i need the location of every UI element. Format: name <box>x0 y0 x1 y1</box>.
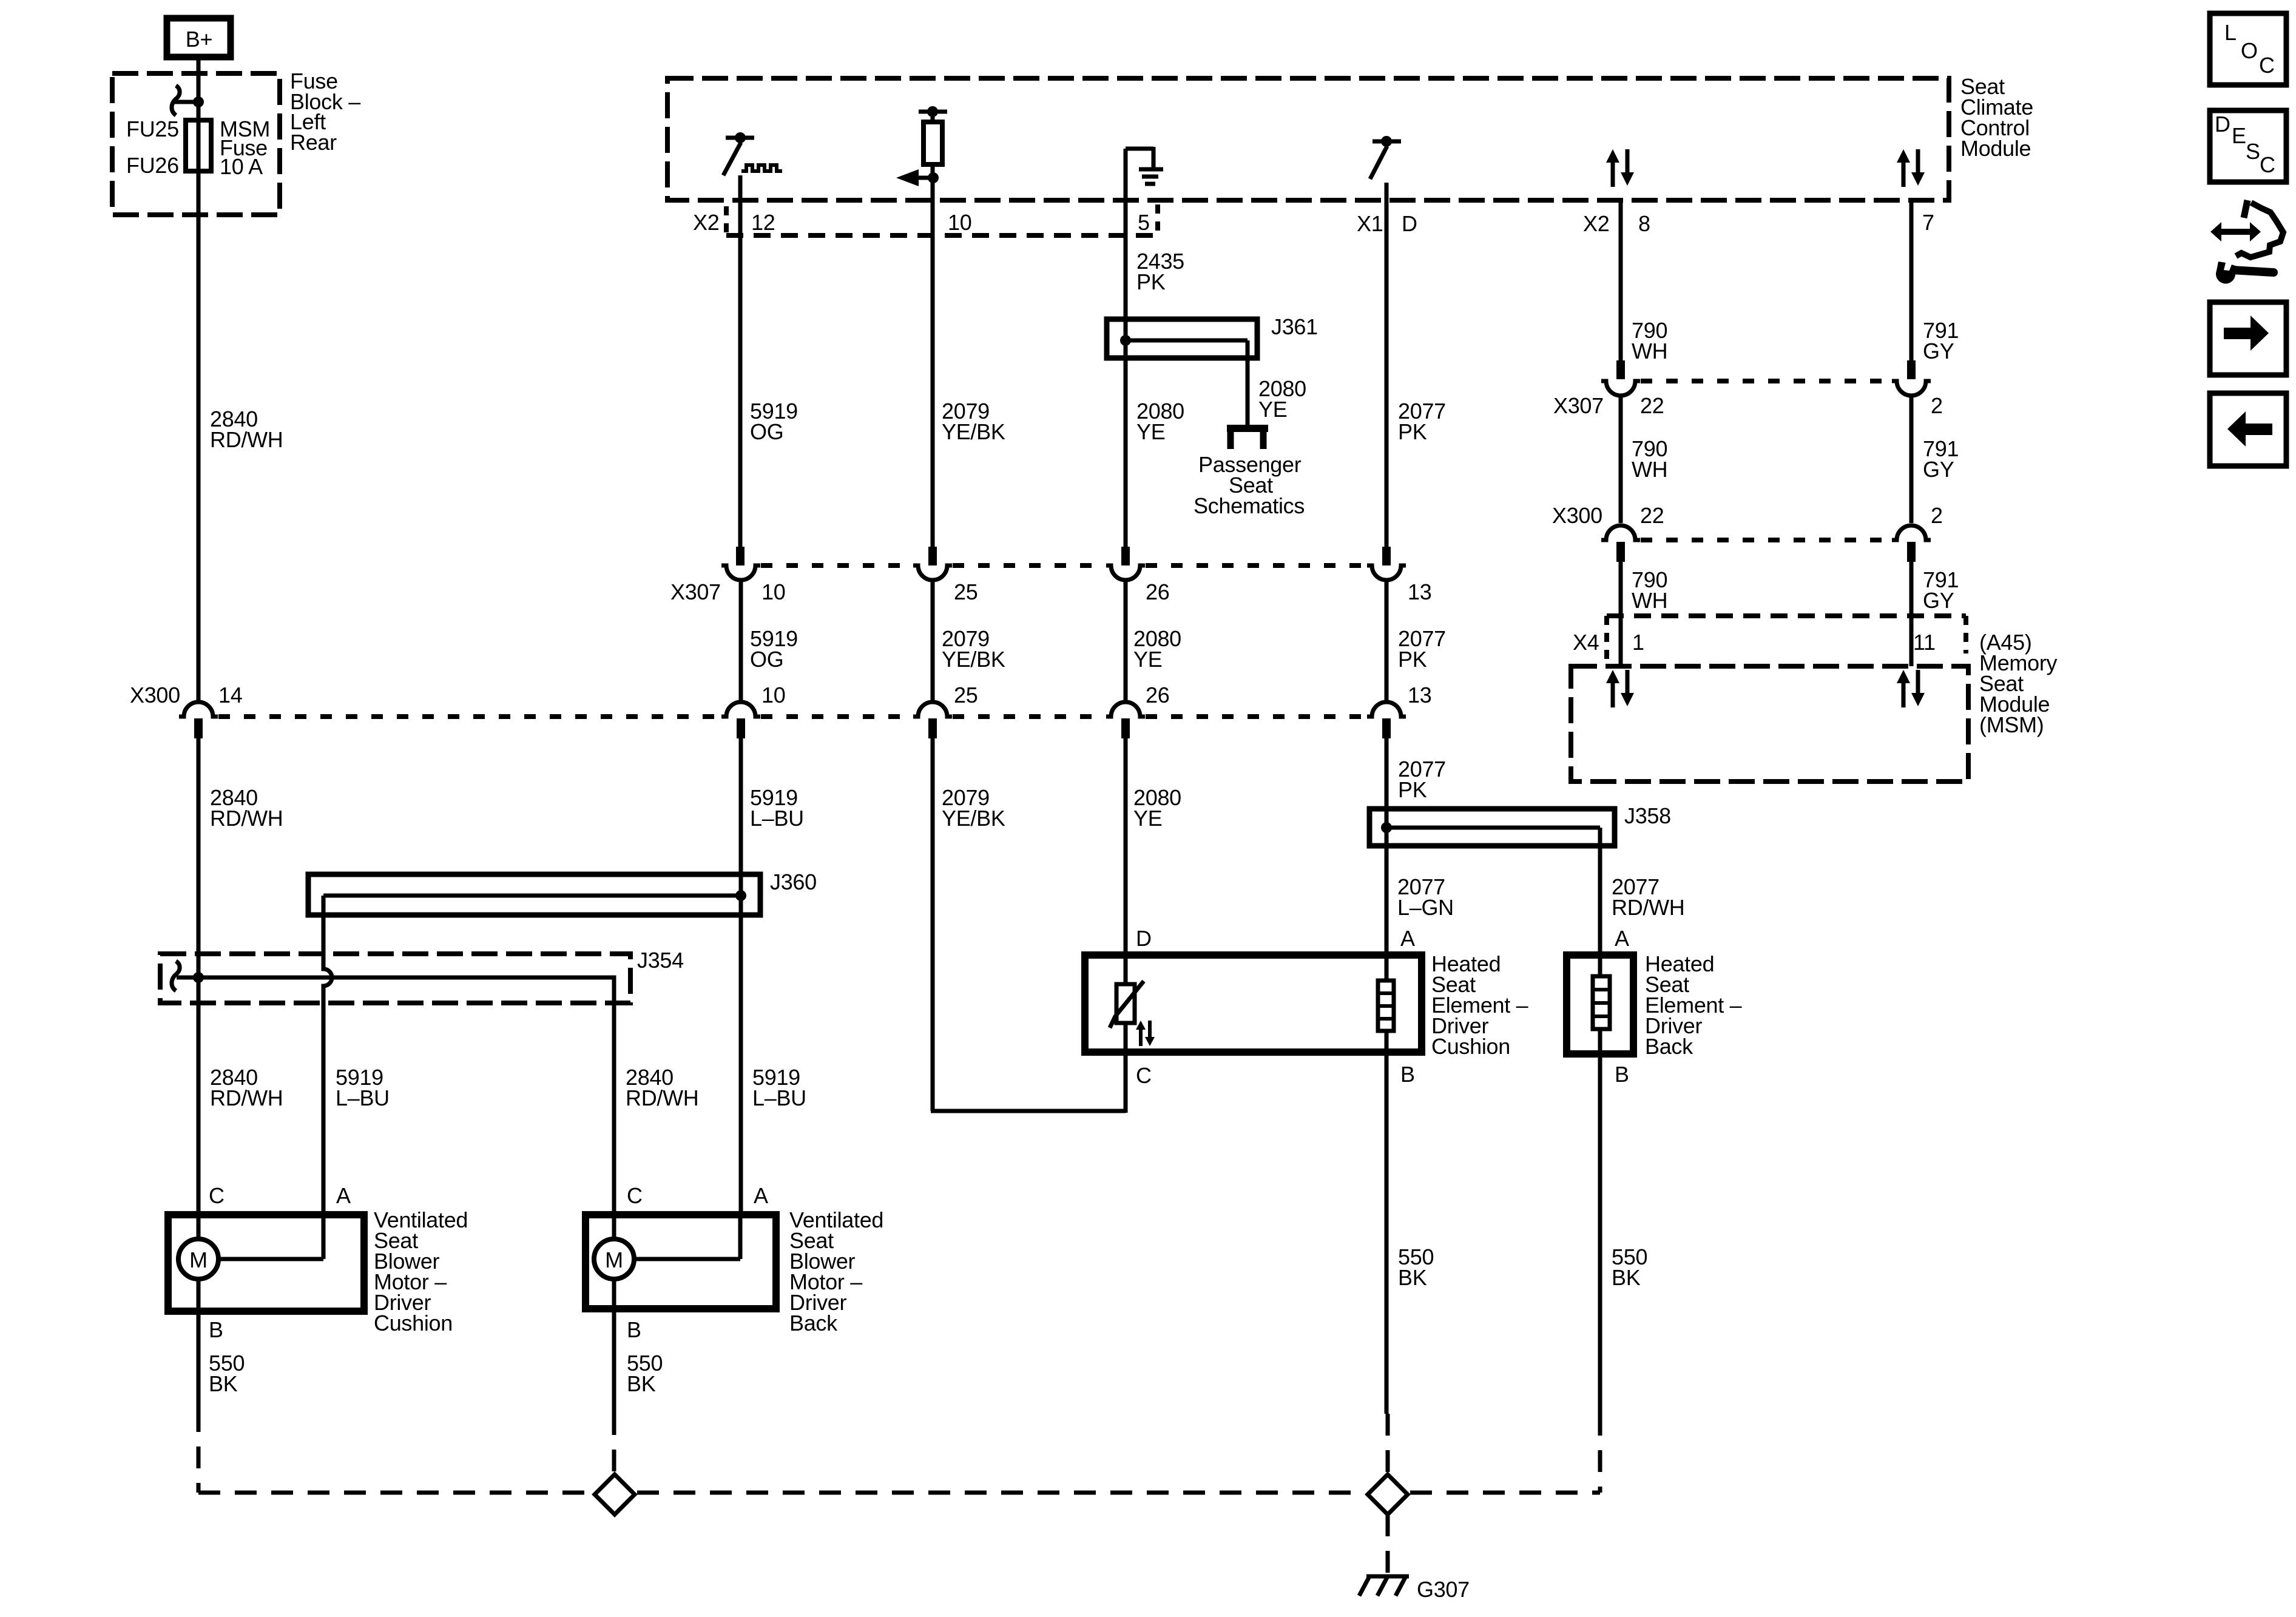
connector line X300 (dashed) <box>218 714 1367 719</box>
svg-text:Rear: Rear <box>290 130 337 155</box>
svg-text:YE: YE <box>1136 419 1165 444</box>
fuse-block terminal hook <box>172 86 198 115</box>
fuse block label <box>290 69 360 155</box>
svg-text:B: B <box>1615 1062 1629 1087</box>
junction dot J354 <box>193 972 204 983</box>
connector X300 terminal pin 25 (arc + pin) <box>913 702 952 738</box>
feedback arrow on pin 10 branch <box>896 164 939 186</box>
circuit label 791 GY (above X307) <box>1923 318 1959 363</box>
label ventilated seat blower motor driver cushion <box>374 1207 468 1335</box>
svg-text:A: A <box>754 1183 768 1208</box>
svg-text:11: 11 <box>1913 630 1936 655</box>
ground junction diamond (left) <box>595 1474 635 1514</box>
svg-text:B: B <box>1400 1062 1415 1087</box>
connector X4 pin labels <box>1573 630 1936 655</box>
circuit label 790 WH (above X307) <box>1632 318 1667 363</box>
svg-text:10: 10 <box>761 683 785 707</box>
svg-text:YE: YE <box>1258 397 1287 422</box>
wire 2840 RD/WH below X300 to motor C <box>197 738 201 1410</box>
MSM serial data arrows (pin 1) <box>1606 670 1634 707</box>
circuit label 550 BK (cushion element) <box>1398 1244 1434 1290</box>
fuse block - left rear (dashed box) <box>112 73 280 215</box>
svg-text:J361: J361 <box>1271 314 1318 339</box>
svg-text:13: 13 <box>1408 579 1431 604</box>
connector X307 terminal pin 10 (pin + cup) <box>721 547 760 580</box>
wire 2840 RD/WH jumper through J354 to right motor C (with crossover hop) <box>177 977 614 1215</box>
svg-text:L–BU: L–BU <box>750 806 804 831</box>
wire 790 WH X307 to X300 <box>1619 396 1623 523</box>
svg-text:RD/WH: RD/WH <box>626 1085 698 1110</box>
svg-text:B: B <box>209 1317 223 1342</box>
svg-text:D: D <box>2215 112 2230 137</box>
connector X300 terminal pin 10 (arc + pin) <box>721 702 760 738</box>
junction dot J358 <box>1381 822 1392 833</box>
wire 790 WH module pin 8 to X307 <box>1619 200 1623 362</box>
pin labels heated back element <box>1615 926 1629 1087</box>
wire 5919 OG X307 to X300 <box>739 580 743 702</box>
svg-text:RD/WH: RD/WH <box>210 806 283 831</box>
circuit label 550 BK (left motor) <box>209 1351 245 1396</box>
circuit label 790 WH (upper) <box>1632 436 1667 482</box>
svg-text:X4: X4 <box>1573 630 1599 655</box>
dashed ground wire from left motor <box>197 1410 201 1493</box>
heated seat element - driver back (box) <box>1567 955 1633 1054</box>
svg-text:PK: PK <box>1398 777 1427 802</box>
wire 2435 PK module pin 5 down to J361 <box>1124 149 1128 547</box>
connector X2 pin labels <box>693 210 1934 236</box>
circuit label 2077 RD/WH <box>1612 874 1684 920</box>
svg-text:A: A <box>1615 926 1629 951</box>
svg-text:YE/BK: YE/BK <box>942 806 1005 831</box>
icon harness routing with wrench <box>2210 200 2283 284</box>
svg-text:WH: WH <box>1632 588 1667 613</box>
svg-text:E: E <box>2232 123 2246 148</box>
circuit label 2077 PK (middle) <box>1398 626 1446 672</box>
connector X300 terminal pin 13 (arc + pin) <box>1367 702 1406 738</box>
splice pack J358 <box>1369 809 1615 846</box>
J354 terminal hook <box>172 961 180 991</box>
connector X307 terminal pin 22 right (pin + cup) <box>1601 200 1640 396</box>
connector line X300 right (dashed) <box>1641 538 1892 542</box>
svg-text:26: 26 <box>1146 683 1169 707</box>
svg-text:C: C <box>627 1183 643 1208</box>
internal resistor (module pin 10) <box>919 106 947 164</box>
dashed ground wire from right motor to diamond <box>612 1413 616 1473</box>
connector X300 terminal pin 2 right (arc + pin) <box>1892 525 1931 562</box>
svg-text:8: 8 <box>1638 211 1650 236</box>
svg-text:J360: J360 <box>770 869 817 894</box>
label heated seat element driver cushion <box>1431 951 1528 1059</box>
connector X300 pin 14 labels <box>130 683 242 707</box>
wire 2840 RD/WH from B+ through fuse to X300 <box>197 57 201 702</box>
svg-text:C: C <box>2259 53 2275 78</box>
splice pack J361 <box>1107 319 1257 425</box>
circuit label 5919 OG (middle) <box>750 626 798 672</box>
wire 2077 L-GN J358 to heated cushion element A <box>1385 828 1389 981</box>
circuit label 2077 L-GN <box>1397 874 1454 920</box>
svg-text:Cushion: Cushion <box>1431 1034 1510 1059</box>
circuit label 2435 PK <box>1136 249 1184 294</box>
label heated seat element driver back <box>1645 951 1742 1059</box>
svg-text:25: 25 <box>954 683 977 707</box>
heater element (driver cushion) <box>1378 955 1394 1053</box>
svg-text:(MSM): (MSM) <box>1979 712 2044 737</box>
circuit label 550 BK (right motor) <box>627 1351 663 1396</box>
wire 2077 PK X300 down to J358 <box>1385 738 1389 828</box>
svg-text:RD/WH: RD/WH <box>210 427 283 452</box>
svg-text:OG: OG <box>750 647 783 672</box>
junction dot J360 <box>735 890 746 901</box>
icon forward arrow <box>2210 302 2286 375</box>
dashed wire from diamond to G307 <box>1386 1514 1390 1575</box>
circuit label 791 GY (upper) <box>1923 436 1959 482</box>
svg-text:C: C <box>209 1183 225 1208</box>
svg-text:M: M <box>605 1247 623 1272</box>
dashed ground wire from heated cushion to diamond <box>1386 1414 1390 1473</box>
wire 791 GY X307 to X300 <box>1909 396 1914 523</box>
wire 550 BK from right motor B <box>612 1309 616 1413</box>
wire 2080 YE X307 to X300 <box>1124 580 1128 702</box>
svg-text:BK: BK <box>1612 1265 1641 1290</box>
circuit label 791 GY (lower) <box>1923 567 1959 613</box>
svg-text:PK: PK <box>1398 419 1427 444</box>
svg-text:A: A <box>336 1183 351 1208</box>
svg-text:10: 10 <box>761 579 785 604</box>
svg-text:WH: WH <box>1632 457 1667 482</box>
icon DESC <box>2210 110 2286 182</box>
connector X300 terminal at pin 14 (arc + pin) <box>179 702 218 738</box>
svg-text:YE: YE <box>1133 806 1162 831</box>
svg-text:X1: X1 <box>1357 211 1383 236</box>
circuit label 2077 PK (upper) <box>1398 399 1446 444</box>
svg-text:D: D <box>1136 926 1152 951</box>
seat climate control module (dashed box) <box>667 78 1949 200</box>
svg-text:7: 7 <box>1922 210 1934 235</box>
svg-text:Schematics: Schematics <box>1194 493 1305 518</box>
junction dot in fuse block <box>193 96 204 107</box>
connector X307 terminal pin 2 right (pin + cup) <box>1892 360 1931 396</box>
svg-text:G307: G307 <box>1417 1577 1470 1602</box>
wire 2077 RD/WH J358 to heated back element A <box>1598 828 1602 976</box>
dashed ground wire from heated back to bus <box>1598 1414 1602 1493</box>
svg-text:22: 22 <box>1640 503 1664 528</box>
circuit label 2840 RD/WH (to right motor C) <box>626 1065 698 1110</box>
svg-text:FU25: FU25 <box>126 116 179 141</box>
pin labels right motor <box>627 1183 768 1342</box>
wire thermistor to box bottom (pin C) <box>1124 1023 1128 1113</box>
svg-text:GY: GY <box>1923 588 1954 613</box>
circuit label 5919 L-BU (below X300) <box>750 785 804 831</box>
svg-text:B: B <box>627 1317 641 1342</box>
svg-text:22: 22 <box>1640 393 1664 418</box>
svg-text:C: C <box>2260 152 2275 177</box>
svg-text:25: 25 <box>954 579 977 604</box>
circuit label 2080 YE (lower) <box>1133 785 1181 831</box>
inline connector J354 (dashed box) <box>160 954 630 1003</box>
circuit label 5919 OG (upper) <box>750 399 798 444</box>
battery feed symbol B+ <box>167 18 231 57</box>
svg-text:C: C <box>1136 1063 1152 1088</box>
fuse FU25/FU26 MSM Fuse 10 A <box>126 116 270 179</box>
svg-text:X307: X307 <box>1553 393 1604 418</box>
off-page connector to passenger seat schematics <box>1227 428 1268 449</box>
wire 550 BK heated cushion B down <box>1385 1053 1389 1414</box>
circuit label 2079 YE/BK (lower) <box>942 785 1005 831</box>
wire module pin 12 to X307 <box>738 175 743 547</box>
svg-text:X300: X300 <box>130 683 180 707</box>
icon LOC (top right) <box>2210 13 2286 85</box>
icon back arrow <box>2210 393 2286 466</box>
svg-text:YE/BK: YE/BK <box>942 419 1005 444</box>
svg-text:BK: BK <box>627 1371 656 1396</box>
wire 2079 YE/BK X300 down to heated element C <box>931 738 1126 1111</box>
circuit label 2077 PK (lower) <box>1398 757 1446 802</box>
wire 5919 L-BU X300 to J360 and right motor A <box>739 738 743 1215</box>
circuit label 790 WH (lower) <box>1632 567 1667 613</box>
circuit label 550 BK (back element) <box>1612 1244 1647 1290</box>
memory seat module label <box>1979 650 2058 737</box>
pin labels heated cushion element <box>1136 926 1415 1088</box>
svg-text:BK: BK <box>1398 1265 1427 1290</box>
PWM output switch (module pin 12) <box>723 132 782 175</box>
svg-text:YE/BK: YE/BK <box>942 647 1005 672</box>
svg-text:2: 2 <box>1931 503 1943 528</box>
wire 2077 PK X307 to X300 <box>1385 580 1389 702</box>
label passenger seat schematics <box>1194 452 1305 518</box>
wire 2079 YE/BK X307 to X300 <box>931 580 935 702</box>
ground junction diamond (right) <box>1368 1474 1408 1514</box>
splice pack J360 <box>308 874 760 915</box>
heated seat element - driver cushion (box) <box>1085 955 1422 1052</box>
svg-text:L–BU: L–BU <box>752 1085 806 1110</box>
svg-text:10 A: 10 A <box>220 154 263 179</box>
svg-text:X2: X2 <box>1583 211 1609 236</box>
svg-text:1: 1 <box>1632 630 1644 655</box>
svg-text:14: 14 <box>218 683 242 707</box>
connector line X307 (dashed) <box>761 563 1367 568</box>
svg-text:Back: Back <box>789 1311 838 1335</box>
svg-text:X2: X2 <box>693 210 719 235</box>
ventilated seat blower motor - driver cushion <box>168 1215 364 1311</box>
wire 791 GY module pin 7 to X307 <box>1909 200 1914 362</box>
module serial data arrows (pin 8) <box>1606 149 1634 187</box>
svg-text:Back: Back <box>1645 1034 1693 1059</box>
connector X300 terminal pin 22 right (arc + pin) <box>1601 525 1640 562</box>
svg-text:A: A <box>1400 926 1415 951</box>
svg-text:5: 5 <box>1138 210 1150 235</box>
connector line X307 right (dashed) <box>1641 379 1892 383</box>
connector X300 right pin labels <box>1552 503 1943 528</box>
thermistor signal arrows <box>1136 1021 1155 1046</box>
circuit label 2079 YE/BK (upper) <box>942 399 1005 444</box>
svg-text:D: D <box>1402 211 1417 236</box>
seat climate control module label <box>1960 74 2033 161</box>
svg-text:10: 10 <box>948 210 971 235</box>
connector X2 dotted line (module) <box>726 204 1158 235</box>
thermistor (seat temperature sensor) <box>1110 981 1144 1028</box>
wire 790 WH X300 to MSM <box>1619 562 1623 666</box>
wire 2080 YE X300 down to heated element D <box>1124 738 1128 985</box>
svg-text:12: 12 <box>751 210 775 235</box>
pin labels left motor <box>209 1183 351 1342</box>
svg-text:YE: YE <box>1133 647 1162 672</box>
svg-text:L: L <box>2224 20 2237 45</box>
circuit label 2079 YE/BK (middle) <box>942 626 1005 672</box>
connector X307 right pin labels <box>1553 393 1943 418</box>
wire 550 BK from left motor B <box>197 1311 201 1410</box>
svg-text:O: O <box>2241 38 2258 63</box>
svg-text:OG: OG <box>750 419 783 444</box>
circuit label 2840 RD/WH (upper) <box>210 407 283 452</box>
svg-text:Cushion: Cushion <box>374 1311 453 1335</box>
wire 2077 PK module pin D to X307 <box>1385 183 1389 547</box>
svg-text:GY: GY <box>1923 339 1954 363</box>
svg-text:PK: PK <box>1136 269 1166 294</box>
svg-text:PK: PK <box>1398 647 1427 672</box>
svg-text:WH: WH <box>1632 339 1667 363</box>
svg-text:2: 2 <box>1931 393 1943 418</box>
circuit label 5919 L-BU (to left motor A) <box>336 1065 390 1110</box>
switch contact (module pin D, X1) <box>1370 136 1401 179</box>
module internal ground symbol (pin 5) <box>1126 147 1163 184</box>
svg-text:BK: BK <box>209 1371 238 1396</box>
svg-text:26: 26 <box>1146 579 1169 604</box>
connector X4 dotted line <box>1607 616 1966 661</box>
svg-text:RD/WH: RD/WH <box>1612 895 1684 920</box>
circuit label 2080 YE (middle) <box>1133 626 1181 672</box>
svg-text:L–GN: L–GN <box>1397 895 1454 920</box>
svg-text:RD/WH: RD/WH <box>210 1085 283 1110</box>
connector X300 pin labels (row) <box>761 683 1431 707</box>
circuit label 2080 YE (below J361) <box>1136 399 1184 444</box>
svg-text:L–BU: L–BU <box>336 1085 390 1110</box>
svg-text:GY: GY <box>1923 457 1954 482</box>
circuit label 2080 YE (passenger stub) <box>1258 376 1306 422</box>
ground G307 symbol <box>1359 1576 1409 1596</box>
svg-text:B+: B+ <box>186 27 212 52</box>
svg-text:FU26: FU26 <box>126 153 179 178</box>
junction dot J361 <box>1120 335 1131 346</box>
memory seat module MSM (dashed box) <box>1571 666 1968 781</box>
connector X300 terminal pin 26 (arc + pin) <box>1106 702 1145 738</box>
svg-text:X300: X300 <box>1552 503 1602 528</box>
circuit label 2840 RD/WH (lower left) <box>210 785 283 831</box>
svg-text:X307: X307 <box>670 579 721 604</box>
connector X307 terminal pin 26 (pin + cup) <box>1106 547 1145 580</box>
label ventilated seat blower motor driver back <box>789 1207 883 1335</box>
module serial data arrows (pin 7) <box>1897 149 1925 187</box>
heater element (driver back) <box>1593 976 1610 1054</box>
connector X307 terminal pin 13 (pin + cup) <box>1367 547 1406 580</box>
svg-text:S: S <box>2246 139 2260 164</box>
ventilated seat blower motor - driver back <box>586 1215 776 1309</box>
MSM serial data arrows (pin 11) <box>1897 670 1925 707</box>
svg-text:M: M <box>189 1247 208 1272</box>
wire 791 GY X300 to MSM <box>1909 562 1914 666</box>
svg-text:J354: J354 <box>637 948 684 973</box>
ground bus dashed line (bottom) <box>198 1491 1600 1495</box>
wire 5919 L-BU from J360 down to left motor A <box>323 896 332 1215</box>
circuit label 2840 RD/WH (to left motor C) <box>210 1065 283 1110</box>
wire module pin 10 to X307 <box>931 178 935 547</box>
wire 550 BK heated back B down <box>1598 1054 1602 1414</box>
connector X307 pin labels <box>670 579 1431 604</box>
svg-text:13: 13 <box>1408 683 1431 707</box>
circuit label 5919 L-BU (to right motor A) <box>752 1065 806 1110</box>
svg-text:Module: Module <box>1960 136 2031 161</box>
connector X307 terminal pin 25 (pin + cup) <box>913 547 952 580</box>
svg-text:J358: J358 <box>1624 803 1671 828</box>
